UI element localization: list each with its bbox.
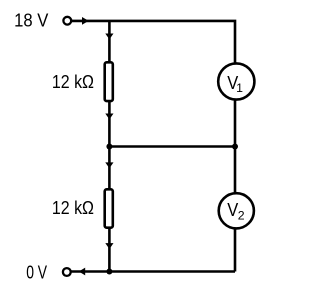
- svg-text:18 V: 18 V: [14, 10, 49, 30]
- svg-text:0 V: 0 V: [26, 262, 48, 282]
- svg-text:12 kΩ: 12 kΩ: [52, 198, 94, 218]
- svg-text:2: 2: [238, 209, 245, 223]
- svg-text:1: 1: [236, 81, 243, 95]
- svg-text:12 kΩ: 12 kΩ: [52, 72, 94, 92]
